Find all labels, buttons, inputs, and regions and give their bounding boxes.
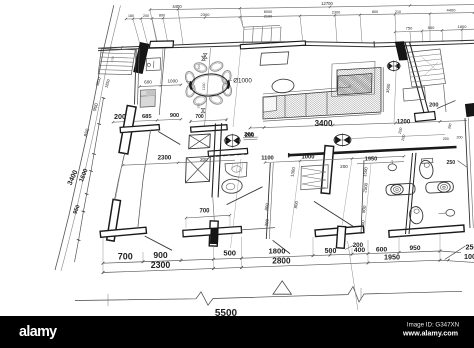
wall mid vertical lower — [212, 161, 220, 197]
svg-text:200: 200 — [340, 164, 348, 169]
toilet centre room — [221, 178, 243, 194]
rug outline — [332, 62, 376, 97]
wall pier bottom-left vertical (outlined) — [107, 199, 121, 241]
svg-text:600: 600 — [144, 79, 152, 84]
fan symbol S1 — [386, 60, 401, 72]
svg-text:900: 900 — [170, 113, 179, 119]
svg-text:2800: 2800 — [272, 257, 291, 266]
footer black piece bottom-right edge — [466, 104, 474, 117]
svg-text:3400: 3400 — [67, 169, 80, 186]
svg-text:1800: 1800 — [458, 24, 468, 29]
svg-text:800: 800 — [264, 202, 270, 211]
wall mid pier bottom (outlined) — [209, 221, 218, 246]
svg-text:4400: 4400 — [172, 4, 182, 9]
toilet 2 (bottom) — [408, 206, 423, 225]
svg-text:Image ID: G347XN: Image ID: G347XN — [407, 322, 459, 329]
fan symbol S2 — [333, 133, 445, 147]
extension lines bottom — [103, 234, 440, 274]
svg-text:200: 200 — [353, 242, 364, 249]
cabinet below wardrobe — [403, 87, 426, 101]
svg-text:1800: 1800 — [269, 247, 286, 256]
svg-text:1000: 1000 — [464, 252, 474, 261]
corridor wall top-right (leaning) — [405, 42, 429, 113]
svg-text:2100: 2100 — [264, 15, 272, 19]
break line with 5500 — [75, 241, 462, 319]
svg-text:900: 900 — [153, 250, 168, 260]
wall line right of centre junction — [241, 228, 275, 230]
sofa chaise (hatched) — [297, 26, 413, 142]
svg-text:180: 180 — [128, 14, 134, 18]
right room left wall — [266, 163, 273, 239]
radiator with zigzag — [301, 165, 328, 190]
dimension row right rooms — [261, 155, 405, 170]
level triangle — [273, 281, 291, 294]
appliance box with X (kitchen) — [189, 134, 211, 149]
svg-text:3800: 3800 — [94, 76, 102, 87]
wall pier bottom-centre vert (outlined) — [336, 226, 345, 248]
wall bar top-left (outlined) — [149, 41, 173, 48]
dimension 2300 kitchen — [122, 155, 235, 167]
svg-text:300: 300 — [196, 103, 200, 109]
dimension labels top — [128, 1, 456, 18]
oval coffee table — [272, 78, 295, 93]
svg-text:1600: 1600 — [78, 167, 90, 183]
svg-text:500: 500 — [325, 248, 337, 255]
wall bar below kitchen (outlined + dashed) — [208, 148, 248, 156]
dimension 700 above kitchen bar — [189, 53, 227, 123]
cupboard with fixture under stairs — [146, 58, 160, 71]
door swing right room — [314, 201, 354, 226]
wardrobe top-right — [407, 49, 447, 112]
exterior wall top (double line) — [98, 40, 474, 50]
svg-text:950: 950 — [409, 245, 420, 252]
bath left wall line — [361, 160, 371, 234]
svg-text:200: 200 — [143, 14, 149, 18]
door swing kitchen — [158, 132, 180, 145]
kitchen unit (grey) — [140, 89, 155, 107]
svg-text:4400: 4400 — [447, 8, 457, 13]
svg-text:700: 700 — [118, 251, 133, 261]
svg-text:200: 200 — [443, 137, 449, 141]
dimension 700 door centre — [185, 208, 231, 228]
dim 1950 bath — [357, 123, 468, 168]
tv cabinet rect — [260, 52, 289, 66]
svg-text:1180: 1180 — [202, 83, 206, 91]
extension lines top — [133, 8, 462, 48]
svg-text:2300: 2300 — [151, 260, 171, 270]
kitchen column right edge — [159, 48, 165, 115]
svg-text:12700: 12700 — [321, 1, 333, 6]
bottom dimension row 2 — [102, 242, 474, 274]
wall mid vertical (double) — [214, 123, 222, 161]
svg-text:500: 500 — [223, 248, 236, 257]
bottom dimension row 1 — [102, 245, 461, 264]
extension 1200 + label 3600 + wall cap — [374, 41, 397, 122]
bottom wall pier centre (solid) — [211, 228, 219, 243]
svg-text:1950: 1950 — [384, 252, 400, 261]
svg-text:700: 700 — [195, 114, 204, 120]
svg-text:550: 550 — [428, 25, 435, 30]
wall pier A (solid) — [134, 43, 149, 74]
svg-text:685: 685 — [142, 114, 152, 120]
svg-text:200: 200 — [429, 103, 438, 109]
svg-text:Ø1000: Ø1000 — [233, 78, 252, 85]
svg-text:1850: 1850 — [103, 78, 111, 89]
svg-text:850: 850 — [83, 128, 91, 138]
sofa seat divisions — [263, 67, 383, 121]
toilet 1 (top right room) — [418, 158, 434, 180]
window with mullions top-centre — [240, 25, 305, 49]
svg-text:1000: 1000 — [167, 79, 178, 84]
bottom wall bar centre-left (outlined) — [183, 226, 242, 236]
svg-text:200: 200 — [398, 127, 404, 134]
dimension chain top row 1-2 — [125, 4, 474, 20]
label 200 with leader top-right — [429, 101, 455, 109]
svg-text:950: 950 — [73, 204, 82, 215]
wash basin small — [388, 160, 396, 171]
svg-text:3400: 3400 — [315, 119, 333, 128]
svg-text:800: 800 — [372, 10, 378, 14]
svg-text:1100: 1100 — [261, 156, 274, 162]
svg-text:800: 800 — [159, 14, 165, 18]
sofa L-shape (hatched) — [141, 0, 474, 275]
svg-text:8000: 8000 — [264, 10, 272, 14]
svg-text:2300: 2300 — [201, 12, 211, 17]
svg-text:750: 750 — [406, 26, 413, 31]
bath mid wall (double) — [406, 153, 417, 234]
svg-text:200: 200 — [457, 136, 463, 140]
vertical labels right rooms — [264, 166, 369, 228]
dimension 3400 under sofa — [243, 119, 467, 141]
alamy banner — [0, 316, 474, 348]
wall bar P3' (outlined) — [191, 125, 228, 132]
dining table with 8 chairs — [184, 48, 252, 127]
svg-text:250: 250 — [466, 242, 474, 251]
svg-text:210: 210 — [395, 10, 401, 14]
extension line sill to 3400 — [233, 49, 241, 127]
kitchen inner edge — [161, 48, 163, 84]
wall bar bottom-left (outlined) — [100, 227, 146, 237]
fan symbol S0 — [224, 133, 258, 147]
svg-text:www.alamy.com: www.alamy.com — [402, 329, 458, 338]
door swing bottom-left — [145, 236, 172, 250]
svg-text:250: 250 — [446, 160, 455, 166]
svg-text:300: 300 — [447, 123, 452, 130]
wall left column (double) — [135, 48, 140, 104]
svg-text:3600: 3600 — [385, 83, 392, 94]
svg-text:200: 200 — [401, 134, 407, 141]
svg-text:2300: 2300 — [332, 11, 340, 15]
svg-text:700: 700 — [199, 208, 210, 214]
label 200 bottom centre — [345, 242, 364, 250]
staircase top-left — [98, 49, 135, 75]
wall bar bottom-centre (outlined) — [315, 226, 364, 237]
wall bar P3 (outlined) — [120, 125, 159, 133]
svg-text:alamy: alamy — [19, 324, 57, 340]
dimension chain left (steep) with labels — [67, 76, 111, 262]
svg-text:200: 200 — [264, 218, 270, 227]
svg-text:1000: 1000 — [302, 155, 315, 161]
svg-text:300: 300 — [197, 64, 201, 70]
right exterior wall — [465, 118, 473, 228]
small basin 2 — [439, 209, 455, 216]
corridor wall footer — [415, 112, 436, 122]
wall pier P2 (outlined, leaning) — [119, 106, 136, 155]
wall bar bottom-right (outlined) — [389, 225, 464, 237]
wall edge below gap — [213, 198, 215, 222]
washer pills with drums — [386, 181, 454, 195]
bathroom top wall (thick) — [289, 147, 457, 157]
svg-text:2300: 2300 — [158, 155, 172, 162]
appliance box 2 with X — [186, 156, 211, 183]
corner basin centre room — [225, 162, 247, 177]
svg-text:1950: 1950 — [365, 157, 377, 163]
wall pier top-right (solid) — [396, 42, 408, 60]
extension lines rooms faint — [231, 159, 353, 248]
sheet edge left (steep) — [55, 5, 121, 271]
kitchen dimension rows — [112, 79, 182, 124]
svg-text:1300: 1300 — [290, 166, 297, 177]
wall lines above bottom-left junction — [115, 130, 151, 228]
door swing bottom-centre — [273, 240, 290, 253]
door swing centre room — [227, 187, 263, 205]
svg-text:1200: 1200 — [397, 119, 411, 125]
dimension chain top right row 3 — [394, 24, 474, 33]
wall pier bath-left (outlined) — [321, 146, 334, 194]
